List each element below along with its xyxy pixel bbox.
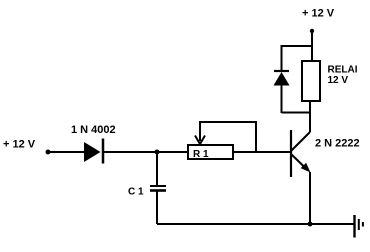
wire junction J1 down to C1	[156, 152, 158, 186]
wire wiper right down to output	[255, 121, 257, 152]
wire input to diode D1	[48, 151, 85, 153]
svg-text:+ 12 V: + 12 V	[3, 139, 36, 151]
node IN (+12V input terminal)	[46, 150, 51, 155]
svg-text:RELAI: RELAI	[328, 65, 358, 76]
potentiometer R1 body	[188, 145, 233, 159]
wire flyback branch lower	[281, 85, 283, 113]
wire collector up to relay	[309, 101, 311, 132]
ground bar 1	[353, 215, 355, 238]
ground bar 3	[362, 222, 364, 227]
diode D2 flyback cathode bar	[274, 70, 289, 72]
node VCC (+12V top terminal)	[310, 29, 314, 33]
transistor Q1 emitter arrowhead	[301, 163, 311, 173]
node J1 (C1 tap junction)	[155, 150, 160, 155]
capacitor C1 bottom plate	[150, 189, 166, 192]
wire top to flyback diode branch	[282, 45, 313, 47]
capacitor C1 top plate	[150, 185, 166, 187]
diode D2 flyback triangle	[274, 72, 290, 86]
wire wiper top horizontal	[199, 121, 256, 123]
wire emitter down to bottom rail	[309, 172, 311, 224]
relay K1 coil body	[302, 61, 320, 101]
wire flyback branch upper	[281, 45, 283, 71]
wire C1 to bottom rail	[156, 191, 158, 224]
svg-text:1 N 4002: 1 N 4002	[71, 124, 116, 136]
node J2 (relay/diode bottom junction)	[282, 112, 311, 114]
wire bottom ground rail	[157, 223, 354, 225]
diode D1 1N4002 anode triangle	[84, 142, 101, 162]
transistor Q1 collector lead	[291, 132, 310, 151]
svg-text:R 1: R 1	[193, 149, 209, 160]
node J3 (emitter/ground rail junction)	[308, 222, 313, 227]
svg-text:C 1: C 1	[128, 187, 144, 198]
transistor Q1 base bar	[290, 130, 292, 177]
wire diode D1 to R1	[104, 151, 188, 153]
transistor Q1 emitter lead	[291, 154, 307, 170]
ground bar 2	[358, 219, 360, 230]
potentiometer R1 wiper arrow	[195, 136, 205, 145]
diode D1 cathode bar	[102, 139, 105, 164]
wire R1 output to Q1 base	[234, 151, 290, 153]
svg-text:+ 12 V: + 12 V	[302, 8, 335, 20]
wire wiper stem up	[199, 122, 201, 141]
svg-text:12 V: 12 V	[328, 75, 349, 86]
wire relay top to +12V terminal	[311, 31, 313, 62]
svg-text:2 N 2222: 2 N 2222	[315, 138, 360, 150]
